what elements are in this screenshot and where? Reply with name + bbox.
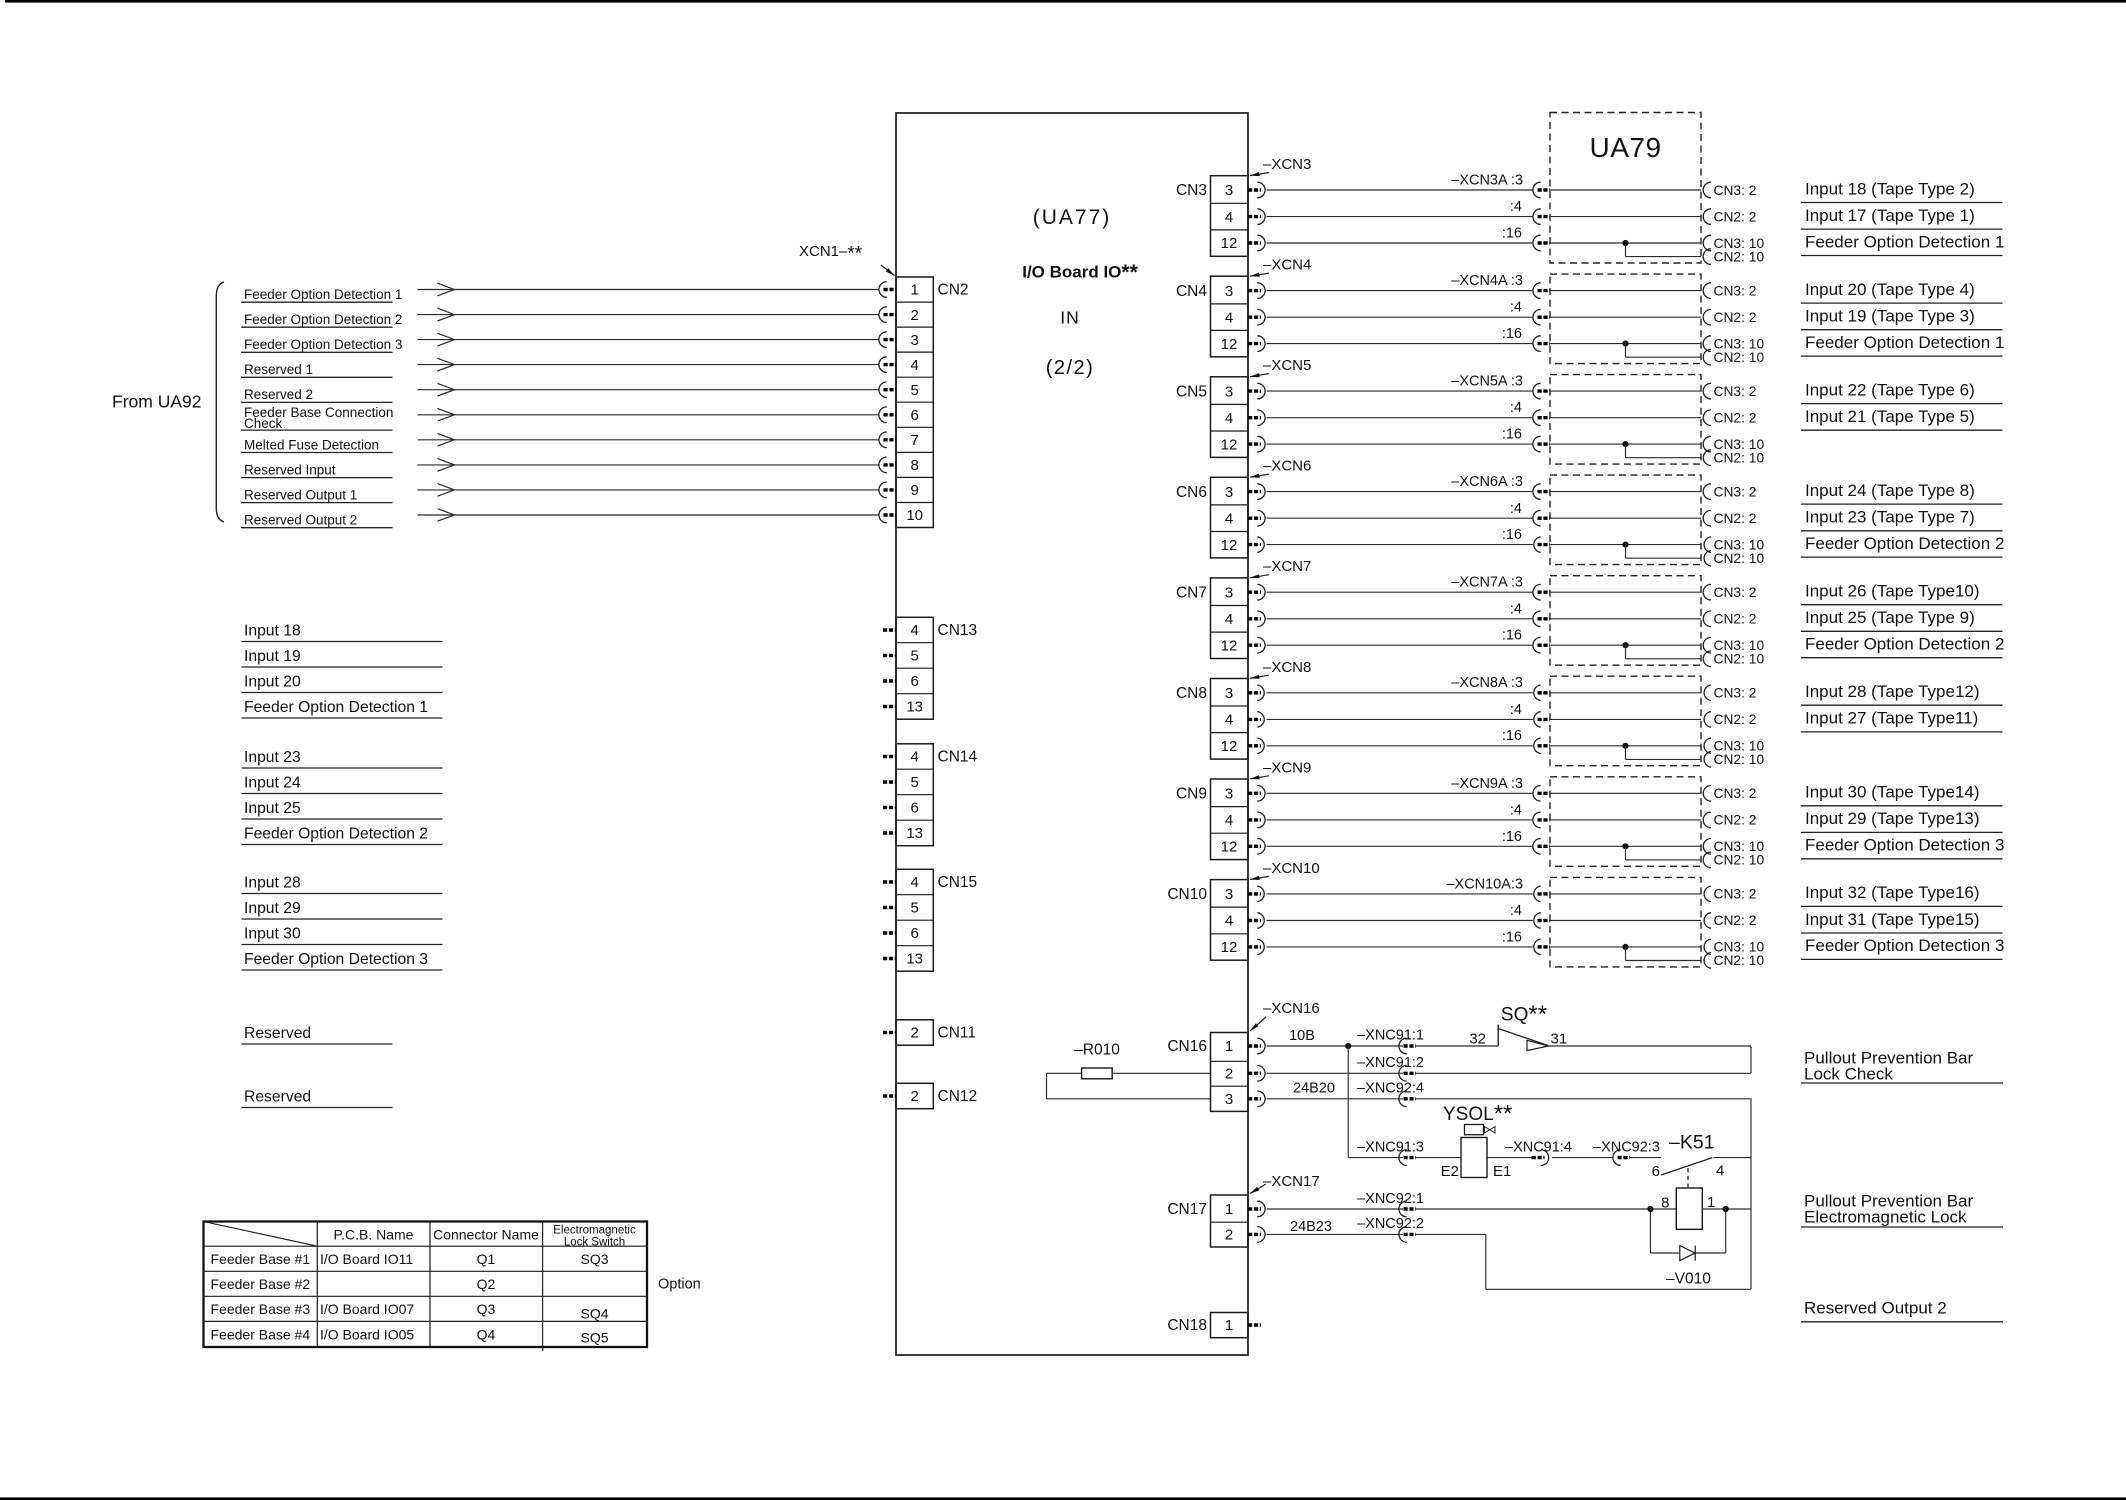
svg-text:CN7: CN7 bbox=[1176, 584, 1207, 601]
svg-text:–XNC91:2: –XNC91:2 bbox=[1357, 1055, 1424, 1071]
svg-text:–XCN7A :3: –XCN7A :3 bbox=[1451, 575, 1523, 591]
svg-text:6: 6 bbox=[911, 925, 919, 942]
svg-text:Input 29 (Tape Type13): Input 29 (Tape Type13) bbox=[1805, 809, 1980, 828]
svg-text:Input 25 (Tape Type 9): Input 25 (Tape Type 9) bbox=[1805, 608, 1975, 627]
svg-text:CN12: CN12 bbox=[938, 1088, 978, 1105]
svg-text:12: 12 bbox=[1221, 637, 1238, 654]
svg-text:6: 6 bbox=[911, 407, 919, 424]
svg-text:Q1: Q1 bbox=[477, 1251, 496, 1267]
svg-text:CN9: CN9 bbox=[1176, 786, 1207, 803]
svg-text:CN2: 2: CN2: 2 bbox=[1714, 209, 1757, 224]
svg-text:Reserved Output 2: Reserved Output 2 bbox=[1804, 1299, 1947, 1318]
svg-text:10B: 10B bbox=[1289, 1028, 1315, 1044]
svg-text:–XCN3: –XCN3 bbox=[1263, 156, 1311, 173]
svg-text:Feeder Option Detection 2: Feeder Option Detection 2 bbox=[244, 826, 428, 843]
svg-text:I/O Board IO07: I/O Board IO07 bbox=[320, 1301, 414, 1317]
svg-text:–XCN3A :3: –XCN3A :3 bbox=[1451, 173, 1523, 189]
svg-text:–V010: –V010 bbox=[1666, 1271, 1711, 1288]
svg-text:Input 19: Input 19 bbox=[244, 648, 301, 665]
svg-text:CN3: 2: CN3: 2 bbox=[1714, 585, 1757, 600]
svg-text:–XCN8A :3: –XCN8A :3 bbox=[1451, 675, 1523, 691]
svg-text:12: 12 bbox=[1221, 738, 1238, 755]
svg-text:–XNC92:3: –XNC92:3 bbox=[1593, 1139, 1660, 1155]
svg-text:–XCN8: –XCN8 bbox=[1263, 659, 1311, 676]
svg-text:Electromagnetic Lock: Electromagnetic Lock bbox=[1804, 1208, 1967, 1227]
svg-text:–R010: –R010 bbox=[1074, 1042, 1120, 1059]
svg-text:Input 28 (Tape Type12): Input 28 (Tape Type12) bbox=[1805, 682, 1980, 701]
svg-text:Q4: Q4 bbox=[477, 1327, 496, 1343]
svg-text:CN14: CN14 bbox=[938, 749, 978, 766]
svg-text:1: 1 bbox=[1225, 1201, 1233, 1218]
svg-text:Input 30 (Tape Type14): Input 30 (Tape Type14) bbox=[1805, 783, 1980, 802]
svg-text:Feeder Option Detection 1: Feeder Option Detection 1 bbox=[1805, 232, 2004, 251]
svg-text:Input 29: Input 29 bbox=[244, 900, 301, 917]
svg-text:–XCN4: –XCN4 bbox=[1263, 257, 1311, 274]
svg-text:I/O Board IO05: I/O Board IO05 bbox=[320, 1327, 414, 1343]
svg-text::16: :16 bbox=[1502, 929, 1522, 945]
svg-text:–XNC91:1: –XNC91:1 bbox=[1357, 1028, 1424, 1044]
svg-text:(UA77): (UA77) bbox=[1033, 206, 1112, 229]
svg-text:8: 8 bbox=[911, 457, 919, 474]
svg-text:4: 4 bbox=[1225, 712, 1233, 729]
svg-text:3: 3 bbox=[1225, 484, 1233, 501]
svg-text:YSOL**: YSOL** bbox=[1443, 1101, 1512, 1128]
svg-text:Input 24: Input 24 bbox=[244, 775, 301, 792]
svg-text:6: 6 bbox=[911, 800, 919, 817]
svg-text:CN3: CN3 bbox=[1176, 182, 1207, 199]
svg-text:CN16: CN16 bbox=[1167, 1038, 1207, 1055]
svg-text:12: 12 bbox=[1221, 939, 1238, 956]
svg-text:32: 32 bbox=[1469, 1031, 1486, 1048]
svg-text:3: 3 bbox=[911, 332, 919, 349]
svg-text:4: 4 bbox=[1225, 410, 1233, 427]
svg-text:CN3: 2: CN3: 2 bbox=[1714, 686, 1757, 701]
svg-text:CN13: CN13 bbox=[938, 622, 978, 639]
svg-text:Input 31 (Tape Type15): Input 31 (Tape Type15) bbox=[1805, 910, 1980, 929]
svg-text:CN3: 2: CN3: 2 bbox=[1714, 484, 1757, 499]
svg-text:4: 4 bbox=[911, 357, 919, 374]
svg-text:3: 3 bbox=[1225, 886, 1233, 903]
svg-text:SQ**: SQ** bbox=[1501, 1001, 1547, 1028]
svg-text:12: 12 bbox=[1221, 436, 1238, 453]
svg-text:SQ4: SQ4 bbox=[580, 1306, 608, 1322]
svg-text:Q3: Q3 bbox=[477, 1301, 496, 1317]
svg-text:1: 1 bbox=[911, 282, 919, 299]
svg-text:Input 28: Input 28 bbox=[244, 875, 301, 892]
svg-text:CN3: 2: CN3: 2 bbox=[1714, 887, 1757, 902]
svg-text:CN17: CN17 bbox=[1167, 1201, 1207, 1218]
svg-text:Input 22 (Tape Type 6): Input 22 (Tape Type 6) bbox=[1805, 380, 1975, 399]
svg-text:Input 26 (Tape Type10): Input 26 (Tape Type10) bbox=[1805, 582, 1980, 601]
svg-text:–XCN7: –XCN7 bbox=[1263, 558, 1311, 575]
svg-text:CN3: 2: CN3: 2 bbox=[1714, 786, 1757, 801]
svg-text:–XCN16: –XCN16 bbox=[1263, 1000, 1320, 1017]
svg-text:SQ3: SQ3 bbox=[580, 1251, 608, 1267]
svg-text:–XCN6: –XCN6 bbox=[1263, 458, 1311, 475]
svg-text:Input 32 (Tape Type16): Input 32 (Tape Type16) bbox=[1805, 883, 1980, 902]
svg-text:CN10: CN10 bbox=[1167, 886, 1207, 903]
svg-text:4: 4 bbox=[1225, 209, 1233, 226]
svg-text::4: :4 bbox=[1510, 199, 1522, 215]
svg-text:SQ5: SQ5 bbox=[580, 1330, 608, 1346]
svg-text:Feeder Option Detection 3: Feeder Option Detection 3 bbox=[1805, 836, 2004, 855]
svg-text:(2/2): (2/2) bbox=[1046, 357, 1095, 379]
svg-text:Input 23 (Tape Type 7): Input 23 (Tape Type 7) bbox=[1805, 508, 1975, 527]
svg-text:Input 24 (Tape Type 8): Input 24 (Tape Type 8) bbox=[1805, 481, 1975, 500]
svg-text:I/O Board IO**: I/O Board IO** bbox=[1022, 261, 1138, 284]
svg-text:4: 4 bbox=[1225, 309, 1233, 326]
svg-text:13: 13 bbox=[906, 699, 923, 716]
svg-text:Lock Switch: Lock Switch bbox=[564, 1237, 625, 1249]
svg-text:Feeder Option Detection 1: Feeder Option Detection 1 bbox=[1805, 333, 2004, 352]
svg-text:–XCN17: –XCN17 bbox=[1263, 1173, 1320, 1190]
svg-text:4: 4 bbox=[1225, 913, 1233, 930]
svg-text:Feeder Option Detection 2: Feeder Option Detection 2 bbox=[1805, 534, 2004, 553]
svg-text::16: :16 bbox=[1502, 527, 1522, 543]
svg-text:13: 13 bbox=[906, 951, 923, 968]
svg-text:Input 20 (Tape Type 4): Input 20 (Tape Type 4) bbox=[1805, 280, 1975, 299]
svg-text:Feeder Option Detection 3: Feeder Option Detection 3 bbox=[1805, 936, 2004, 955]
svg-text:–XCN9A :3: –XCN9A :3 bbox=[1451, 776, 1523, 792]
svg-text:E1: E1 bbox=[1493, 1163, 1511, 1180]
svg-text:Reserved 1: Reserved 1 bbox=[244, 362, 313, 377]
svg-text:CN2: 2: CN2: 2 bbox=[1714, 612, 1757, 627]
svg-text:10: 10 bbox=[906, 507, 923, 524]
svg-text:Input 18: Input 18 bbox=[244, 623, 301, 640]
svg-text:2: 2 bbox=[911, 307, 919, 324]
svg-text:9: 9 bbox=[911, 482, 919, 499]
svg-text:CN2: CN2 bbox=[938, 282, 969, 299]
svg-text:Feeder Option Detection 1: Feeder Option Detection 1 bbox=[244, 699, 428, 716]
svg-text:I/O Board IO11: I/O Board IO11 bbox=[320, 1251, 413, 1267]
svg-text:–XNC91:4: –XNC91:4 bbox=[1505, 1139, 1572, 1155]
svg-text::4: :4 bbox=[1510, 903, 1522, 919]
svg-text:31: 31 bbox=[1551, 1031, 1568, 1048]
svg-text:Feeder Option Detection 3: Feeder Option Detection 3 bbox=[244, 337, 402, 352]
svg-text:–XCN4A :3: –XCN4A :3 bbox=[1451, 273, 1523, 289]
svg-text:Input 25: Input 25 bbox=[244, 800, 301, 817]
svg-text:13: 13 bbox=[906, 825, 923, 842]
svg-text:E2: E2 bbox=[1441, 1163, 1459, 1180]
svg-text:Reserved 2: Reserved 2 bbox=[244, 387, 313, 402]
svg-text:4: 4 bbox=[1716, 1163, 1724, 1180]
svg-text:Option: Option bbox=[658, 1277, 701, 1293]
svg-text:Input 17 (Tape Type 1): Input 17 (Tape Type 1) bbox=[1805, 206, 1975, 225]
svg-text:CN6: CN6 bbox=[1176, 484, 1207, 501]
svg-text:Reserved Output 1: Reserved Output 1 bbox=[244, 487, 357, 502]
svg-text:Feeder Base #3: Feeder Base #3 bbox=[211, 1301, 311, 1317]
svg-text:CN2: 10: CN2: 10 bbox=[1714, 752, 1765, 767]
svg-text:Reserved Output 2: Reserved Output 2 bbox=[244, 513, 357, 528]
svg-text:3: 3 bbox=[1225, 1091, 1233, 1108]
svg-text:Input 20: Input 20 bbox=[244, 674, 301, 691]
svg-text:12: 12 bbox=[1221, 235, 1238, 252]
svg-text::4: :4 bbox=[1510, 300, 1522, 316]
svg-text::16: :16 bbox=[1502, 829, 1522, 845]
svg-text:24B23: 24B23 bbox=[1290, 1219, 1332, 1235]
svg-text:Feeder Option Detection 1: Feeder Option Detection 1 bbox=[244, 287, 402, 302]
svg-text:Connector Name: Connector Name bbox=[433, 1227, 539, 1243]
svg-text:P.C.B. Name: P.C.B. Name bbox=[334, 1227, 414, 1243]
svg-text:Input 30: Input 30 bbox=[244, 926, 301, 943]
svg-text:CN2: 2: CN2: 2 bbox=[1714, 411, 1757, 426]
svg-text:–XCN5: –XCN5 bbox=[1263, 357, 1311, 374]
svg-text:3: 3 bbox=[1225, 786, 1233, 803]
svg-text:CN2: 10: CN2: 10 bbox=[1714, 350, 1765, 365]
svg-text:4: 4 bbox=[911, 874, 919, 891]
svg-text:4: 4 bbox=[1225, 812, 1233, 829]
svg-text:CN15: CN15 bbox=[938, 874, 978, 891]
svg-text::16: :16 bbox=[1502, 226, 1522, 242]
svg-text:Electromagnetic: Electromagnetic bbox=[553, 1225, 636, 1237]
svg-text:3: 3 bbox=[1225, 383, 1233, 400]
svg-text:12: 12 bbox=[1221, 839, 1238, 856]
svg-text:Input 27 (Tape Type11): Input 27 (Tape Type11) bbox=[1805, 709, 1978, 728]
svg-text:6: 6 bbox=[911, 673, 919, 690]
svg-text:–XNC91:3: –XNC91:3 bbox=[1357, 1139, 1424, 1155]
svg-text:12: 12 bbox=[1221, 336, 1238, 353]
svg-text:Input 21 (Tape Type 5): Input 21 (Tape Type 5) bbox=[1805, 407, 1975, 426]
svg-text:3: 3 bbox=[1225, 685, 1233, 702]
svg-text:–K51: –K51 bbox=[1669, 1132, 1715, 1154]
svg-text::4: :4 bbox=[1510, 400, 1522, 416]
svg-text:Feeder Base #4: Feeder Base #4 bbox=[211, 1327, 311, 1343]
svg-text:CN8: CN8 bbox=[1176, 685, 1207, 702]
svg-text:1: 1 bbox=[1225, 1317, 1233, 1334]
svg-text:Reserved: Reserved bbox=[244, 1025, 311, 1042]
svg-text::16: :16 bbox=[1502, 628, 1522, 644]
svg-text:24B20: 24B20 bbox=[1293, 1081, 1335, 1097]
svg-text:UA79: UA79 bbox=[1589, 132, 1661, 163]
svg-text:Feeder Option Detection 2: Feeder Option Detection 2 bbox=[1805, 635, 2004, 654]
svg-text:4: 4 bbox=[1225, 511, 1233, 528]
svg-text:CN2: 2: CN2: 2 bbox=[1714, 813, 1757, 828]
svg-text:5: 5 bbox=[911, 382, 919, 399]
svg-text:5: 5 bbox=[911, 774, 919, 791]
svg-text:CN3: 2: CN3: 2 bbox=[1714, 283, 1757, 298]
svg-text:2: 2 bbox=[1225, 1227, 1233, 1244]
svg-text:Check: Check bbox=[244, 416, 283, 431]
svg-text:CN3: 2: CN3: 2 bbox=[1714, 384, 1757, 399]
svg-text:Feeder Option Detection 2: Feeder Option Detection 2 bbox=[244, 312, 402, 327]
svg-text:CN2: 10: CN2: 10 bbox=[1714, 652, 1765, 667]
svg-text:Feeder Base #2: Feeder Base #2 bbox=[211, 1276, 311, 1292]
svg-text:–XCN6A :3: –XCN6A :3 bbox=[1451, 474, 1523, 490]
svg-text:CN2: 10: CN2: 10 bbox=[1714, 953, 1765, 968]
svg-text:3: 3 bbox=[1225, 182, 1233, 199]
svg-text:5: 5 bbox=[911, 900, 919, 917]
svg-text::16: :16 bbox=[1502, 326, 1522, 342]
svg-text:CN2: 10: CN2: 10 bbox=[1714, 551, 1765, 566]
svg-text:4: 4 bbox=[911, 622, 919, 639]
svg-text:6: 6 bbox=[1652, 1163, 1660, 1180]
svg-text::4: :4 bbox=[1510, 802, 1522, 818]
svg-text:CN18: CN18 bbox=[1167, 1317, 1207, 1334]
svg-text:–XNC92:1: –XNC92:1 bbox=[1357, 1191, 1424, 1207]
svg-text:7: 7 bbox=[911, 432, 919, 449]
svg-text:CN2: 10: CN2: 10 bbox=[1714, 853, 1765, 868]
svg-text::4: :4 bbox=[1510, 601, 1522, 617]
svg-text:Input 19 (Tape Type 3): Input 19 (Tape Type 3) bbox=[1805, 307, 1975, 326]
svg-text:Feeder Option Detection 3: Feeder Option Detection 3 bbox=[244, 951, 428, 968]
svg-text:CN2: 10: CN2: 10 bbox=[1714, 249, 1765, 264]
svg-text:–XCN9: –XCN9 bbox=[1263, 759, 1311, 776]
svg-text:CN2: 2: CN2: 2 bbox=[1714, 310, 1757, 325]
svg-text:Reserved: Reserved bbox=[244, 1089, 311, 1106]
svg-text:CN2: 2: CN2: 2 bbox=[1714, 511, 1757, 526]
svg-text:3: 3 bbox=[1225, 283, 1233, 300]
svg-text:Melted Fuse Detection: Melted Fuse Detection bbox=[244, 437, 379, 452]
svg-text:CN4: CN4 bbox=[1176, 283, 1207, 300]
svg-text:2: 2 bbox=[911, 1088, 919, 1105]
svg-text:CN11: CN11 bbox=[938, 1025, 976, 1042]
svg-text:Feeder Base #1: Feeder Base #1 bbox=[211, 1251, 311, 1267]
svg-text:4: 4 bbox=[911, 749, 919, 766]
svg-text:From UA92: From UA92 bbox=[112, 392, 201, 412]
svg-text::4: :4 bbox=[1510, 501, 1522, 517]
svg-text::16: :16 bbox=[1502, 427, 1522, 443]
svg-text:–XCN5A :3: –XCN5A :3 bbox=[1451, 374, 1523, 390]
svg-text:CN3: 2: CN3: 2 bbox=[1714, 183, 1757, 198]
svg-text::16: :16 bbox=[1502, 728, 1522, 744]
svg-text:–XCN10: –XCN10 bbox=[1263, 860, 1320, 877]
svg-text:CN2: 2: CN2: 2 bbox=[1714, 712, 1757, 727]
svg-text:–XNC92:2: –XNC92:2 bbox=[1357, 1216, 1424, 1232]
svg-text:1: 1 bbox=[1225, 1038, 1233, 1055]
svg-text:IN: IN bbox=[1060, 308, 1080, 328]
svg-text:4: 4 bbox=[1225, 611, 1233, 628]
svg-text:Q2: Q2 bbox=[477, 1276, 496, 1292]
svg-text::4: :4 bbox=[1510, 702, 1522, 718]
svg-text:–XCN10A:3: –XCN10A:3 bbox=[1446, 876, 1523, 892]
svg-text:8: 8 bbox=[1661, 1195, 1669, 1212]
svg-text:3: 3 bbox=[1225, 584, 1233, 601]
svg-text:2: 2 bbox=[911, 1025, 919, 1042]
svg-text:12: 12 bbox=[1221, 537, 1238, 554]
svg-text:CN2: 10: CN2: 10 bbox=[1714, 451, 1765, 466]
svg-text:Input 23: Input 23 bbox=[244, 749, 301, 766]
svg-text:5: 5 bbox=[911, 648, 919, 665]
svg-text:CN2: 2: CN2: 2 bbox=[1714, 913, 1757, 928]
svg-text:Lock Check: Lock Check bbox=[1804, 1065, 1893, 1084]
svg-text:Reserved Input: Reserved Input bbox=[244, 462, 336, 477]
svg-text:–XNC92:4: –XNC92:4 bbox=[1357, 1080, 1424, 1096]
svg-text:Input 18 (Tape Type 2): Input 18 (Tape Type 2) bbox=[1805, 179, 1975, 198]
svg-text:2: 2 bbox=[1225, 1066, 1233, 1083]
svg-text:CN5: CN5 bbox=[1176, 383, 1207, 400]
